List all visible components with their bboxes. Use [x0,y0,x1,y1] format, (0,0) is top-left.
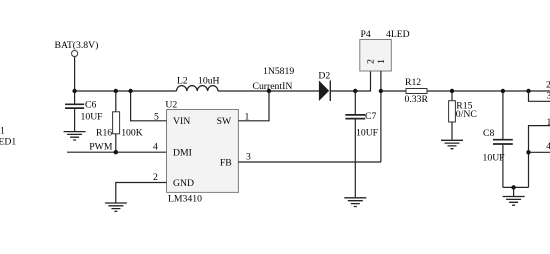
wire BAT stem [74,57,76,91]
svg-text:4LED: 4LED [386,29,410,40]
svg-text:L2: L2 [177,76,188,87]
pin number 2 [153,172,158,183]
ground bottom right [503,187,525,205]
svg-text:VIN: VIN [173,116,190,127]
ground C6 [64,132,86,140]
pin number 1 of SW [245,112,250,123]
junction dot rail/BAT/C6 [72,89,76,93]
label 100K [121,127,143,138]
diode D2 [319,81,330,102]
label PWM [89,142,113,153]
svg-text:100K: 100K [121,127,143,138]
svg-text:C8: C8 [483,128,494,139]
pin number 3 of FB [246,152,251,163]
wire pin3 branch [529,91,550,101]
svg-text:0/NC: 0/NC [456,109,477,120]
label R15 [456,101,472,112]
ground R15 [441,140,463,148]
capacitor C6 [65,91,84,131]
svg-text:4: 4 [546,141,550,152]
svg-text:10UF: 10UF [483,153,506,164]
svg-text:CurrentIN: CurrentIN [253,81,293,92]
label D1 (clipped at left edge) [0,126,5,137]
junction dot C7 top [353,89,357,93]
junction dot VIN riser [128,89,132,93]
label 4LED [386,29,410,40]
label LED1 (clipped at left edge) [0,136,16,147]
label 10uH [198,76,220,87]
svg-text:3: 3 [547,90,550,101]
pin number 2 of P4 (rotated) [365,59,376,64]
svg-text:C6: C6 [85,99,96,110]
resistor R15 [449,91,456,140]
pin number 5 [154,112,159,123]
label L2 [177,76,188,87]
svg-text:5: 5 [154,112,159,123]
svg-text:10uH: 10uH [198,76,220,87]
svg-text:4: 4 [153,142,158,153]
wire rail right segment [381,90,550,92]
label 0/NC [456,109,477,120]
wire pin4 branch [529,151,550,153]
svg-text:R12: R12 [405,77,421,88]
resistor R12 [406,89,427,94]
label LM3410 [168,193,202,204]
svg-text:1: 1 [547,117,550,128]
junction dot bottom right ground tap [511,185,515,189]
junction dot PWM/R16 [114,150,118,154]
svg-text:FB: FB [220,157,232,168]
pin number 1 of P4 (rotated) [376,59,387,64]
wire VIN pin 5 [131,91,167,121]
wire SW pin 1 [238,91,269,121]
svg-text:LM3410: LM3410 [168,193,202,204]
label 1N5819 [263,66,294,77]
capacitor C8 [493,91,513,187]
pin number 4 right edge [546,141,550,152]
svg-text:SW: SW [217,116,232,127]
svg-text:10UF: 10UF [81,112,104,123]
pin name GND [173,178,194,189]
connector P4 box [360,40,392,72]
label CurrentIN [253,81,293,92]
svg-text:LED1: LED1 [0,136,16,147]
op-amp U2 box (LM3410) [167,110,239,193]
svg-text:1: 1 [376,59,387,64]
label C7 [365,111,376,122]
label 10UF of C8 [483,153,506,164]
svg-text:BAT(3.8V): BAT(3.8V) [55,40,99,51]
wire main rail left segment [75,90,177,92]
svg-text:1N5819: 1N5819 [263,66,294,77]
svg-text:DMI: DMI [173,148,192,159]
wire FB pin 3 [238,161,381,163]
label C8 [483,128,494,139]
node BAT(3.8V) label [55,40,99,51]
label 10UF of C7 [356,128,379,139]
svg-text:R16: R16 [96,127,112,138]
svg-text:D2: D2 [318,70,330,81]
wire diode to P4 pin2 corner [330,71,370,91]
capacitor C7 [345,91,365,197]
wire P4 pin1 vertical to FB [380,71,382,162]
svg-text:2: 2 [153,172,158,183]
junction dot P4 pin1 / rail [379,89,383,93]
wire pin1 branch [529,126,550,188]
inductor L2 [177,86,218,91]
svg-text:0.33R: 0.33R [405,94,429,105]
resistor R16 [113,91,120,152]
wire bottom right rail [503,186,529,188]
svg-text:2: 2 [365,59,376,64]
ground C7 [344,198,366,207]
svg-text:P4: P4 [361,29,371,40]
svg-text:D1: D1 [0,126,5,137]
pin name SW [217,116,232,127]
label D2 [318,70,330,81]
label R12 [405,77,421,88]
pin number 2 right edge [546,80,550,91]
wire rail inductor to diode [218,90,319,92]
ground U2 GND [105,203,127,211]
svg-text:1: 1 [245,112,250,123]
pin number 4 [153,142,158,153]
junction dot rail to pins 2/3 [526,89,530,93]
pin number 1 right edge [547,117,550,128]
svg-text:3: 3 [246,152,251,163]
junction dot R15 top [450,89,454,93]
BAT terminal circle [72,50,78,56]
junction dot C8 top [501,89,505,93]
svg-text:C7: C7 [365,111,376,122]
junction dot SW riser / CurrentIN [267,89,271,93]
pin name VIN [173,116,190,127]
junction dot R16 top [114,89,118,93]
svg-text:GND: GND [173,178,194,189]
svg-text:U2: U2 [165,100,177,111]
pin number 3 right edge [547,90,550,101]
pin name DMI [173,148,192,159]
label 0.33R [405,94,429,105]
junction dot pin4 [526,150,530,154]
label P4 [361,29,371,40]
label 10UF of C6 [81,112,104,123]
label R16 [96,127,112,138]
wire GND pin to ground [116,183,167,204]
pin name FB [220,157,232,168]
svg-text:10UF: 10UF [356,128,379,139]
svg-text:2: 2 [546,80,550,91]
wire PWM to DMI [67,151,167,153]
label U2 [165,100,177,111]
label C6 [85,99,96,110]
svg-text:PWM: PWM [89,142,113,153]
